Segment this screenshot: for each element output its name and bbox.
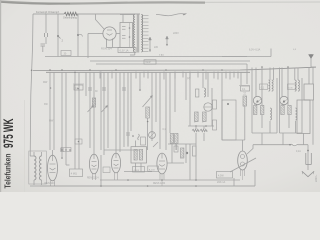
wire [119,72,121,141]
schematic title "Telefunken 975 WK" [0,119,16,189]
trimmer block [75,139,82,144]
resistor R12 [203,112,207,122]
svg-text:A-203: A-203 [149,168,156,171]
resistor R13 [192,129,199,132]
wire [242,140,244,151]
svg-text:4-203: 4-203 [134,170,140,172]
wire [211,88,213,126]
wire [168,143,196,145]
trimmer arrow [88,106,94,113]
wire [221,72,223,140]
wire heater link [222,56,271,58]
svg-text:220: 220 [154,46,159,49]
tube V4 RENS1264 [157,153,167,174]
wire [77,14,79,57]
wire [78,150,80,169]
wire [96,14,105,29]
capacitor C12 [126,132,130,134]
trimmer cap [88,87,92,89]
wire bus 3 [96,63,247,65]
svg-text:Fernempf.: Fernempf. [36,10,48,14]
svg-text:6,3V 1A: 6,3V 1A [120,50,129,53]
wire [106,46,108,48]
wire [52,150,54,155]
label box Netz [144,60,156,64]
wire [294,68,296,81]
wire [127,135,129,147]
tube V1 REN904 [48,155,58,181]
wire [88,33,103,35]
svg-text:Ortsempfang: Ortsempfang [63,17,77,20]
label box 0,1 [260,84,268,90]
wire [195,126,197,129]
arrow head [183,14,187,16]
resistor R7 [146,107,150,118]
wire [130,72,132,131]
wire [155,72,157,122]
wire [45,14,47,33]
wire [171,156,173,163]
potentiometer arrow [143,96,153,108]
wire [165,72,167,150]
svg-text:975 WK: 975 WK [0,119,16,149]
wire [279,68,281,134]
diode tube V4a [253,96,261,104]
node [139,89,141,91]
wire [247,145,253,154]
switch contact b [77,34,79,36]
svg-text:(n): (n) [187,78,190,80]
wire [233,178,235,186]
tube V3 RENS1224 [111,153,120,173]
wire [49,72,51,150]
resistor R14 [200,129,207,132]
trimmer arrow [102,106,108,113]
resistor [193,146,197,156]
label box [133,167,145,173]
fuse Si [166,36,168,46]
tube V2 RENS1214 [89,154,98,174]
svg-text:220V: 220V [173,32,179,35]
svg-text:4,5W: 4,5W [218,175,224,178]
wire [175,144,177,151]
wire [100,72,102,151]
transformer L1/L2 (antenna coil) [34,156,36,180]
wire [189,88,191,126]
wire [246,64,248,84]
wire [122,15,124,23]
resistor R9 [175,134,178,144]
resistor R4 [92,98,95,107]
wire mains lead [156,14,183,16]
wire [269,68,271,81]
wire [107,72,109,141]
label 0,1uF [245,91,247,95]
trimmer cap [122,87,126,89]
wire [222,139,245,141]
wire [195,141,197,180]
mains plug [305,153,307,165]
resistor R10 [196,89,199,97]
capacitor C3 [73,83,84,85]
label box 6.3V [118,48,136,53]
capacitor [174,146,178,152]
wire [297,68,299,81]
resistor R8 [170,134,173,144]
wire bus 1 [45,56,247,58]
wire [77,13,140,15]
svg-text:203 mA: 203 mA [217,181,226,184]
wire [147,118,149,150]
wire main bus B [46,71,250,73]
coil L5 [204,88,206,97]
resistor R11 [195,112,199,122]
wire speaker leads [303,134,305,145]
wire [195,133,197,141]
wire [151,72,153,141]
wire [30,14,33,156]
wire [169,72,171,133]
wire [124,171,152,173]
rectifier tube V6 RGN354 [103,27,116,40]
wire [167,162,184,164]
node [100,185,102,187]
wire [74,150,76,169]
coil L6 [269,80,270,91]
capacitor C1 [44,33,46,37]
wire [78,72,80,150]
wire [240,72,242,85]
label box [103,167,110,173]
wire [307,145,309,170]
wire bus 2 [90,60,250,62]
svg-text:0,1A: 0,1A [296,150,301,153]
wire [134,53,136,56]
AF coupling box [222,100,236,140]
wire [159,72,161,149]
resistor R1 (antenna series) [64,12,77,15]
wire [30,185,40,187]
wire [188,125,214,127]
wire [87,34,89,59]
wire [174,72,176,113]
wire [139,72,141,90]
diode tube V4b [280,96,288,104]
wire [244,106,246,140]
svg-text:6,3V~0,3A: 6,3V~0,3A [249,48,261,51]
resistor R16 [254,106,257,115]
capacitor C10 [60,148,64,150]
wire [74,72,76,150]
wire [61,72,63,150]
coupling caps [213,100,217,109]
resistor [181,148,184,158]
wave switch contacts [61,149,63,151]
output transformer box [304,84,314,100]
wire [312,67,314,84]
svg-text:RENS 1264: RENS 1264 [153,183,166,185]
coil shield frame [29,151,47,184]
triode symbol [204,103,212,111]
wire [45,37,47,44]
svg-text:REN 904: REN 904 [45,182,56,185]
tube V5 RES964 [238,151,248,170]
wire [251,68,253,134]
wire [115,72,117,153]
wire [281,68,283,97]
wire antenna bus [33,13,64,15]
svg-text:220V~: 220V~ [315,174,318,182]
resistor R20 [138,134,140,140]
capacitor C2 [41,43,46,45]
label box A-203 [148,166,159,172]
wire [255,68,257,97]
wire [207,72,209,97]
wire [230,158,256,172]
wire [103,72,105,141]
resistor R15 [243,96,247,106]
wire stubs below bus [99,72,101,79]
wire [89,72,91,148]
switch contact a [57,35,59,37]
resistor R17 [261,106,264,115]
coil L10 [295,108,297,120]
grid leak box [70,169,83,177]
wire [57,14,59,57]
pot circle [149,132,156,139]
wire [93,72,95,154]
IF transformer box [131,147,147,163]
speaker field coil box [297,100,310,134]
wire [202,72,204,88]
transformer Tr1 (mains) [134,15,135,53]
trimmer cap [102,87,106,89]
resistor R18 [281,106,284,115]
node [74,72,76,74]
fuse arrow [149,37,151,52]
svg-text:Netz: Netz [146,61,152,64]
wire [100,179,240,181]
coil L7 [295,80,296,91]
wire [65,150,67,165]
wire main bus A [33,67,316,70]
node [31,70,33,72]
wire [119,141,121,152]
wire [310,60,312,67]
wire [153,142,158,147]
wire [261,68,263,106]
wire [53,72,55,150]
mains cord [302,171,314,176]
wire [269,121,271,133]
antenna symbol [310,54,312,60]
wire [185,72,187,100]
wire [273,68,275,81]
label box output [217,172,233,179]
wire [100,155,102,186]
svg-text:4 MΩ: 4 MΩ [71,173,77,176]
wire [116,33,120,35]
svg-text:RENS1214: RENS1214 [87,178,99,180]
switch dot [50,87,52,89]
filter capacitor block [120,23,133,48]
svg-text:Telefunken: Telefunken [4,153,13,188]
svg-text:Ortsempf.: Ortsempf. [48,10,60,14]
svg-text:7,5V: 7,5V [159,55,164,57]
wire [65,72,67,150]
label box 30 [61,51,71,56]
label 220V [315,174,318,182]
node [186,152,188,154]
wire bottom bus [40,185,255,187]
fuse [292,143,298,146]
resistor R19 [288,106,291,115]
capacitor C8 [239,85,250,87]
wire speaker lead [253,144,308,146]
node [61,157,63,159]
svg-text:MW: MW [43,81,48,84]
wire [287,68,289,106]
wire [189,72,191,89]
wire [127,72,129,146]
label box 0,05 [288,84,296,90]
wire [120,14,135,16]
wire [308,67,310,84]
coil L9 [270,108,272,120]
wire [85,72,87,96]
wire [123,72,125,141]
